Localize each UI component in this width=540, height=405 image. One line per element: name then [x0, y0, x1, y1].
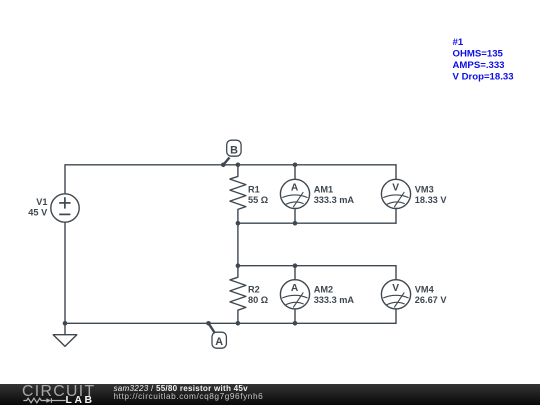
svg-text:A: A [291, 183, 299, 194]
svg-text:AMPS=.333: AMPS=.333 [453, 60, 505, 71]
svg-text:80 Ω: 80 Ω [248, 295, 268, 305]
svg-text:VM4: VM4 [415, 285, 435, 295]
svg-text:26.67 V: 26.67 V [415, 295, 448, 305]
svg-text:V1: V1 [36, 197, 47, 207]
svg-text:V: V [392, 183, 399, 194]
svg-text:B: B [230, 144, 238, 156]
svg-text:A: A [215, 336, 223, 348]
svg-text:18.33 V: 18.33 V [415, 195, 448, 205]
svg-text:55 Ω: 55 Ω [248, 195, 268, 205]
svg-text:VM3: VM3 [415, 185, 434, 195]
svg-text:333.3 mA: 333.3 mA [314, 295, 355, 305]
svg-text:OHMS=135: OHMS=135 [453, 49, 504, 60]
svg-text:#1: #1 [453, 37, 464, 48]
svg-text:45 V: 45 V [28, 208, 48, 218]
svg-text:V: V [392, 283, 399, 294]
svg-text:R1: R1 [248, 185, 260, 195]
svg-text:AM1: AM1 [314, 185, 333, 195]
svg-text:R2: R2 [248, 285, 260, 295]
svg-text:V Drop=18.33: V Drop=18.33 [453, 72, 514, 83]
svg-text:333.3 mA: 333.3 mA [314, 195, 355, 205]
svg-text:A: A [291, 283, 299, 294]
svg-text:AM2: AM2 [314, 285, 333, 295]
